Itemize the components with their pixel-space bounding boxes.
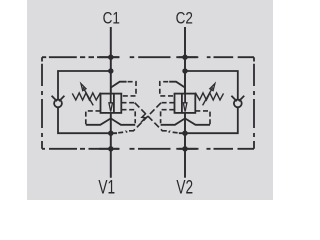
left counterbalance valve assembly bbox=[52, 27, 171, 178]
boundary bottom edge bbox=[42, 148, 254, 150]
page background bbox=[0, 0, 300, 200]
svg-text:C1: C1 bbox=[103, 9, 120, 28]
hydraulic schematic: dual counterbalance valve bbox=[0, 0, 300, 200]
boundary right edge bbox=[253, 57, 255, 149]
boundary left edge bbox=[41, 57, 43, 149]
svg-text:V1: V1 bbox=[98, 176, 115, 198]
gray drawing panel bbox=[27, 0, 273, 200]
crossing hop mark bbox=[141, 114, 146, 123]
valve assembly boundary (dash-dot box) bbox=[42, 57, 254, 149]
boundary top edge bbox=[42, 56, 254, 58]
right counterbalance valve assembly (mirrored) bbox=[125, 27, 244, 178]
svg-text:V2: V2 bbox=[176, 176, 193, 198]
svg-text:C2: C2 bbox=[176, 9, 193, 28]
